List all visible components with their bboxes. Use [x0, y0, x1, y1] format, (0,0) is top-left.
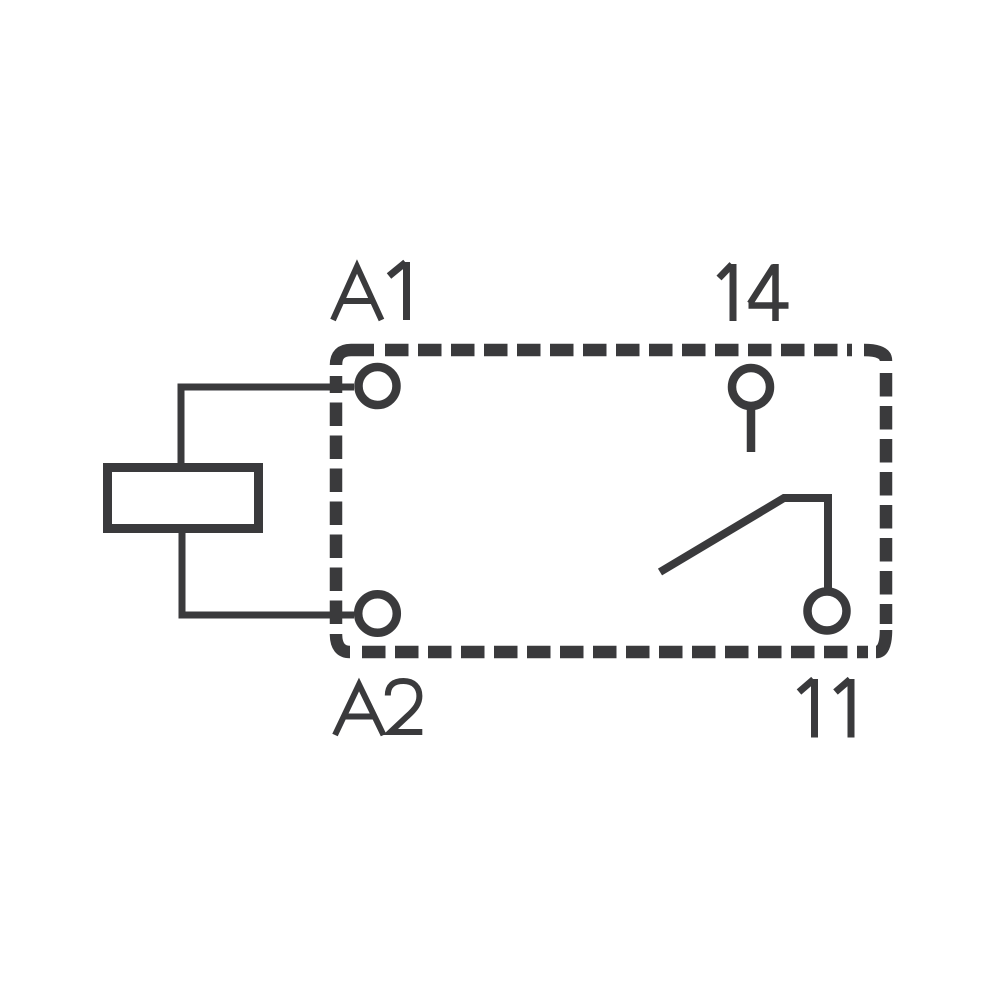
relay body outline K1: top-right corner — [864, 350, 886, 361]
relay body outline K1: top dashed edge — [385, 344, 852, 357]
wire: coil top to terminal A1 — [181, 387, 354, 464]
pin label A1: letter A — [333, 267, 382, 321]
pin label A2: letter A — [335, 685, 384, 736]
relay body outline K1: bottom-right corner — [876, 630, 886, 652]
pin label 11: first digit 1 — [799, 679, 815, 738]
coil — [108, 468, 259, 529]
relay body outline K1: bottom-left corner — [336, 634, 350, 652]
relay body outline K1: bottom dashed edge — [362, 646, 868, 659]
terminal A2 — [358, 594, 397, 633]
terminal A1 — [359, 367, 397, 405]
terminal 11 — [808, 592, 847, 631]
relay body outline K1: top-left corner — [336, 350, 374, 365]
pin label A2: digit 2 — [388, 681, 423, 732]
switch contact arm (NO contact 11-14) — [660, 498, 828, 590]
pin label A1: digit 1 — [389, 262, 407, 320]
pin label 14: digit 1 — [719, 264, 733, 321]
pin 14 stem — [747, 408, 756, 452]
relay body outline K1: left dashed edge — [330, 376, 343, 624]
pin label 14: digit 4 — [749, 264, 789, 321]
relay body outline K1: right dashed edge — [880, 373, 893, 624]
wire: coil bottom to terminal A2 — [182, 532, 354, 615]
terminal 14 — [732, 368, 770, 406]
pin label 11: second digit 1 — [836, 679, 852, 738]
